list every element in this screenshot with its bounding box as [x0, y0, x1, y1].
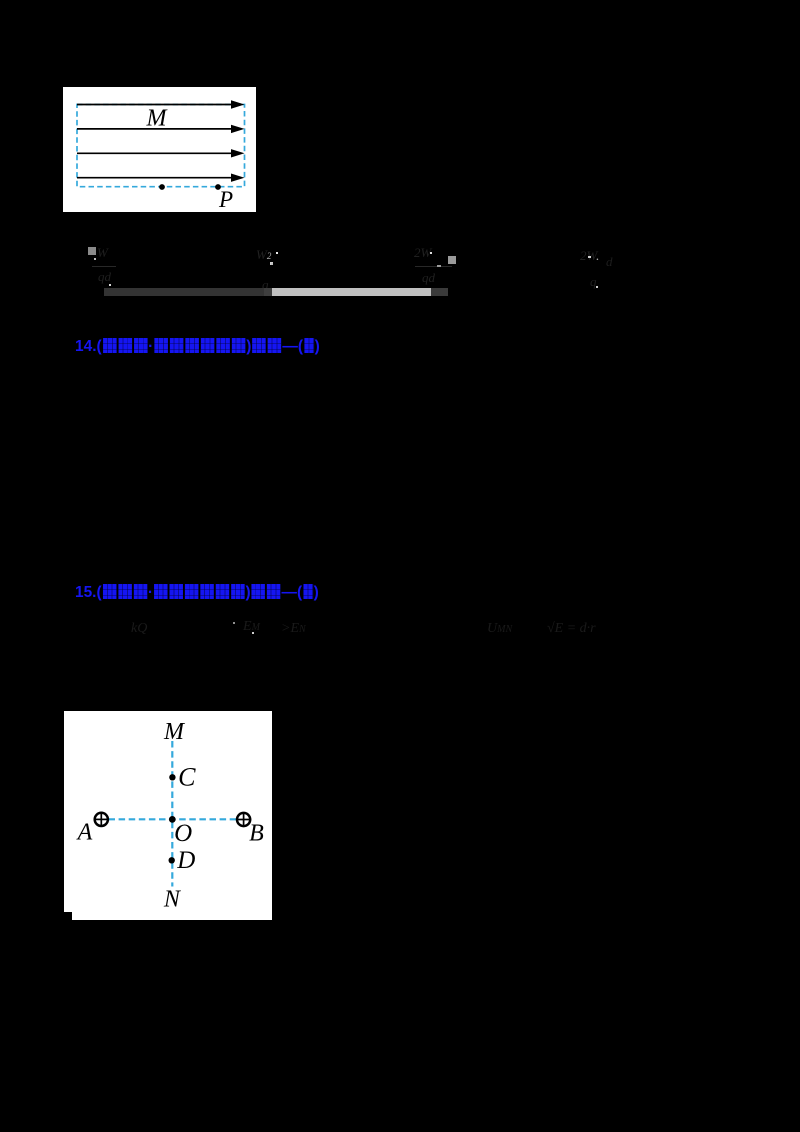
formula row 2 fragment g2: [243, 619, 271, 641]
speck: [276, 252, 278, 254]
highlight bar light: [272, 288, 431, 296]
field line 4: [77, 174, 245, 182]
field line 3: [77, 149, 245, 157]
figure: two charges A B with axes MN: [64, 711, 272, 920]
figure: uniform field with point P: [63, 87, 256, 212]
svg-text:A: A: [76, 819, 93, 845]
dot on boundary: [159, 184, 165, 190]
svg-text:D: D: [176, 847, 195, 874]
svg-text:M: M: [163, 719, 186, 745]
blue heading 1: [75, 338, 320, 354]
vertical dashed axis MN: [171, 741, 173, 887]
option B fraction fragment: [254, 246, 284, 290]
svg-text:C: C: [178, 762, 196, 791]
svg-text:O: O: [174, 820, 192, 847]
svg-text:P: P: [218, 187, 233, 212]
option A fraction fragment: [85, 245, 119, 287]
speck: [109, 284, 111, 286]
speck: [437, 265, 441, 267]
speck: [430, 252, 432, 254]
point C dot: [169, 774, 175, 780]
highlight bar dark left: [104, 288, 264, 296]
svg-text:M: M: [146, 106, 169, 132]
point P dot: [215, 184, 221, 190]
highlight bar mid dark: [264, 288, 272, 296]
point O dot: [169, 816, 176, 823]
formula row 2 fragment g1: [131, 621, 155, 641]
speck: [588, 256, 591, 258]
speck: [233, 622, 235, 624]
charge B plus-circle: [236, 812, 251, 827]
option C fraction fragment: [412, 243, 458, 289]
charge A plus-circle: [94, 812, 109, 827]
speck: [252, 632, 254, 634]
point D dot: [169, 857, 175, 863]
dashed field boundary: [77, 105, 245, 187]
field line 1: [77, 100, 245, 108]
field line 2: [77, 125, 245, 133]
formula row 2 fragment g5: [547, 621, 617, 643]
horizontal dashed axis AB: [109, 818, 237, 820]
speck: [271, 263, 273, 265]
highlight bar right dark: [431, 288, 448, 296]
bottom-left notch: [64, 912, 72, 920]
formula row 2 fragment g4: [487, 621, 521, 641]
blue heading 2: [75, 584, 319, 600]
svg-text:N: N: [163, 887, 182, 913]
speck: [596, 286, 598, 288]
formula row 2 fragment g3: [281, 621, 307, 643]
speck: [94, 258, 96, 260]
option D fraction fragment: [578, 246, 620, 294]
svg-text:B: B: [249, 820, 264, 846]
